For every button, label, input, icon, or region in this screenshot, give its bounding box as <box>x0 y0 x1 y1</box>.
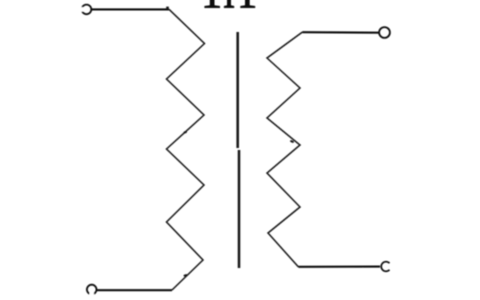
transformer core (lower bar) <box>238 150 241 268</box>
secondary winding L2 (right zigzag) <box>267 32 303 267</box>
wire: secondary bottom to bottom-right terminal <box>299 266 381 268</box>
primary winding L1 (left zigzag) <box>166 7 204 290</box>
terminal circle (top-right) <box>379 27 390 38</box>
terminal circle (bottom-right, open C shape) <box>381 262 389 272</box>
wire: top-left terminal to primary top <box>91 8 169 10</box>
terminal circle (top-left, gap on left) <box>80 5 91 15</box>
terminal circle (bottom-left, gap at bottom) <box>87 285 97 296</box>
wire: top-right terminal to secondary top <box>303 31 380 34</box>
wire: primary bottom to bottom-left terminal <box>96 289 172 291</box>
transformer core (upper bar) <box>236 32 239 148</box>
label T1 text cut off at top (glyph stems with serif feet) <box>204 0 255 8</box>
